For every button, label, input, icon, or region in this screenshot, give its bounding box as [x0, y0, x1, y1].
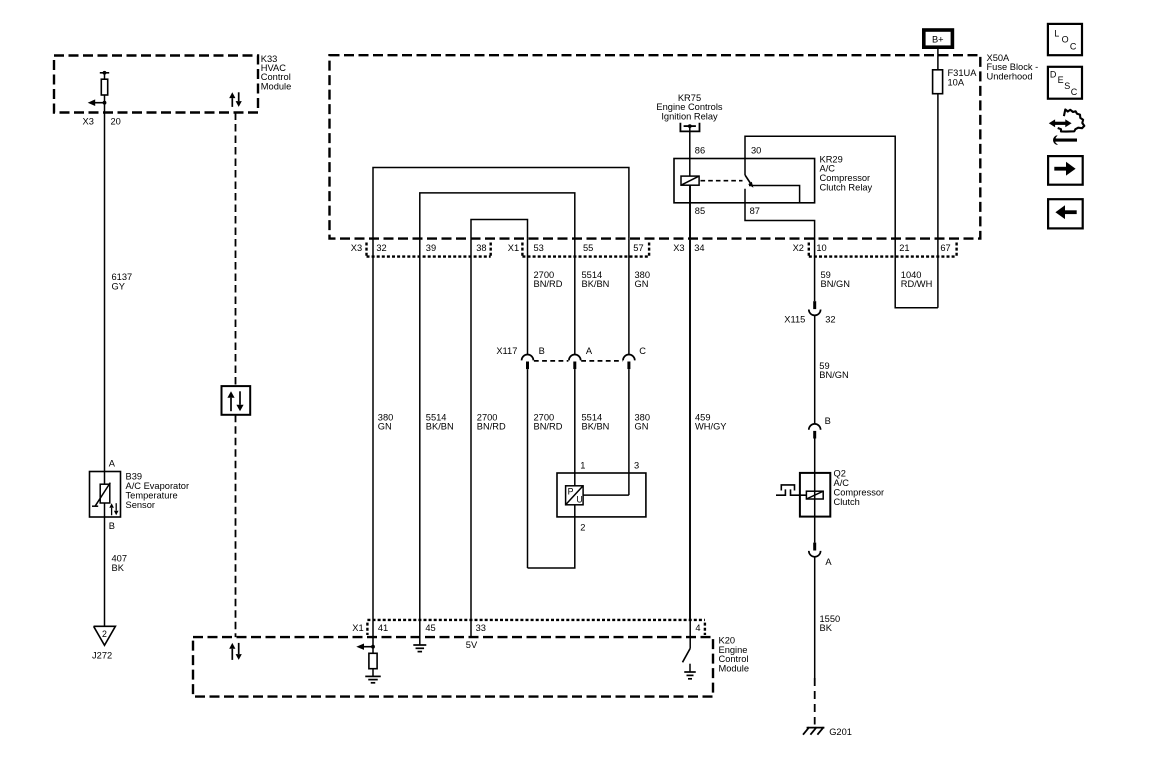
svg-text:41: 41	[378, 623, 388, 633]
svg-text:G201: G201	[829, 727, 852, 737]
svg-text:BN/RD: BN/RD	[534, 422, 563, 432]
svg-text:20: 20	[111, 117, 121, 127]
svg-text:X3: X3	[83, 117, 94, 127]
svg-text:X3: X3	[673, 243, 684, 253]
svg-text:4: 4	[695, 623, 700, 633]
svg-text:B: B	[825, 416, 831, 426]
svg-text:Module: Module	[261, 81, 292, 91]
svg-text:Clutch: Clutch	[834, 497, 860, 507]
svg-text:B39: B39	[126, 472, 143, 482]
svg-text:WH/GY: WH/GY	[695, 422, 727, 432]
svg-text:X1: X1	[352, 623, 363, 633]
svg-text:38: 38	[476, 243, 486, 253]
svg-text:33: 33	[476, 623, 486, 633]
svg-text:39: 39	[426, 243, 436, 253]
svg-text:C: C	[1070, 41, 1077, 51]
svg-text:X2: X2	[793, 243, 804, 253]
svg-text:Ignition Relay: Ignition Relay	[661, 111, 718, 121]
svg-text:U: U	[576, 495, 582, 505]
svg-text:B: B	[539, 346, 545, 356]
svg-text:X115: X115	[784, 315, 805, 325]
svg-text:BK/BN: BK/BN	[426, 422, 454, 432]
svg-text:B: B	[109, 521, 115, 531]
svg-text:D: D	[1050, 69, 1057, 79]
svg-text:2: 2	[580, 522, 585, 532]
svg-text:A/C Evaporator: A/C Evaporator	[126, 481, 190, 491]
svg-text:87: 87	[750, 206, 760, 216]
svg-text:A: A	[825, 557, 832, 567]
svg-text:BN/GN: BN/GN	[819, 370, 848, 380]
svg-text:BK: BK	[820, 623, 833, 633]
svg-text:85: 85	[695, 206, 705, 216]
svg-text:Clutch Relay: Clutch Relay	[820, 182, 873, 192]
svg-text:30: 30	[751, 145, 761, 155]
svg-text:5V: 5V	[466, 640, 478, 650]
svg-text:BN/RD: BN/RD	[477, 422, 506, 432]
svg-text:55: 55	[583, 243, 593, 253]
svg-text:Module: Module	[719, 664, 750, 674]
svg-text:S: S	[1064, 81, 1070, 91]
svg-text:21: 21	[899, 243, 909, 253]
svg-text:X1: X1	[508, 243, 519, 253]
svg-text:A: A	[109, 459, 116, 469]
svg-text:GN: GN	[635, 279, 649, 289]
svg-text:GN: GN	[635, 422, 649, 432]
svg-text:BK: BK	[112, 563, 125, 573]
svg-text:L: L	[1054, 29, 1059, 39]
svg-text:Q2: Q2	[834, 469, 846, 479]
svg-text:A/C: A/C	[834, 478, 850, 488]
svg-text:P: P	[568, 487, 574, 497]
svg-text:RD/WH: RD/WH	[901, 279, 933, 289]
svg-text:Sensor: Sensor	[126, 500, 155, 510]
svg-text:32: 32	[825, 315, 835, 325]
svg-text:BK/BN: BK/BN	[582, 422, 610, 432]
svg-text:32: 32	[376, 243, 386, 253]
svg-text:3: 3	[634, 460, 639, 470]
svg-text:BK/BN: BK/BN	[582, 279, 610, 289]
svg-text:Underhood: Underhood	[987, 71, 1033, 81]
svg-text:45: 45	[425, 623, 435, 633]
svg-text:67: 67	[940, 243, 950, 253]
svg-text:10A: 10A	[948, 77, 965, 87]
svg-text:53: 53	[534, 243, 544, 253]
svg-text:Temperature: Temperature	[126, 491, 178, 501]
svg-text:86: 86	[695, 145, 705, 155]
svg-text:1: 1	[580, 460, 585, 470]
svg-text:10: 10	[816, 243, 826, 253]
svg-text:Compressor: Compressor	[834, 488, 885, 498]
svg-text:X3: X3	[351, 243, 362, 253]
svg-text:C: C	[639, 346, 646, 356]
svg-text:A: A	[586, 346, 593, 356]
svg-text:X117: X117	[496, 346, 517, 356]
svg-text:GY: GY	[112, 281, 125, 291]
svg-text:J272: J272	[92, 651, 112, 661]
svg-text:34: 34	[694, 243, 704, 253]
svg-text:E: E	[1058, 75, 1064, 85]
svg-text:B+: B+	[932, 35, 944, 45]
svg-text:BN/GN: BN/GN	[821, 279, 850, 289]
svg-text:GN: GN	[378, 422, 392, 432]
svg-text:BN/RD: BN/RD	[534, 279, 563, 289]
svg-text:2: 2	[102, 629, 107, 639]
svg-text:O: O	[1062, 35, 1069, 45]
svg-text:C: C	[1071, 87, 1078, 97]
svg-text:57: 57	[633, 243, 643, 253]
